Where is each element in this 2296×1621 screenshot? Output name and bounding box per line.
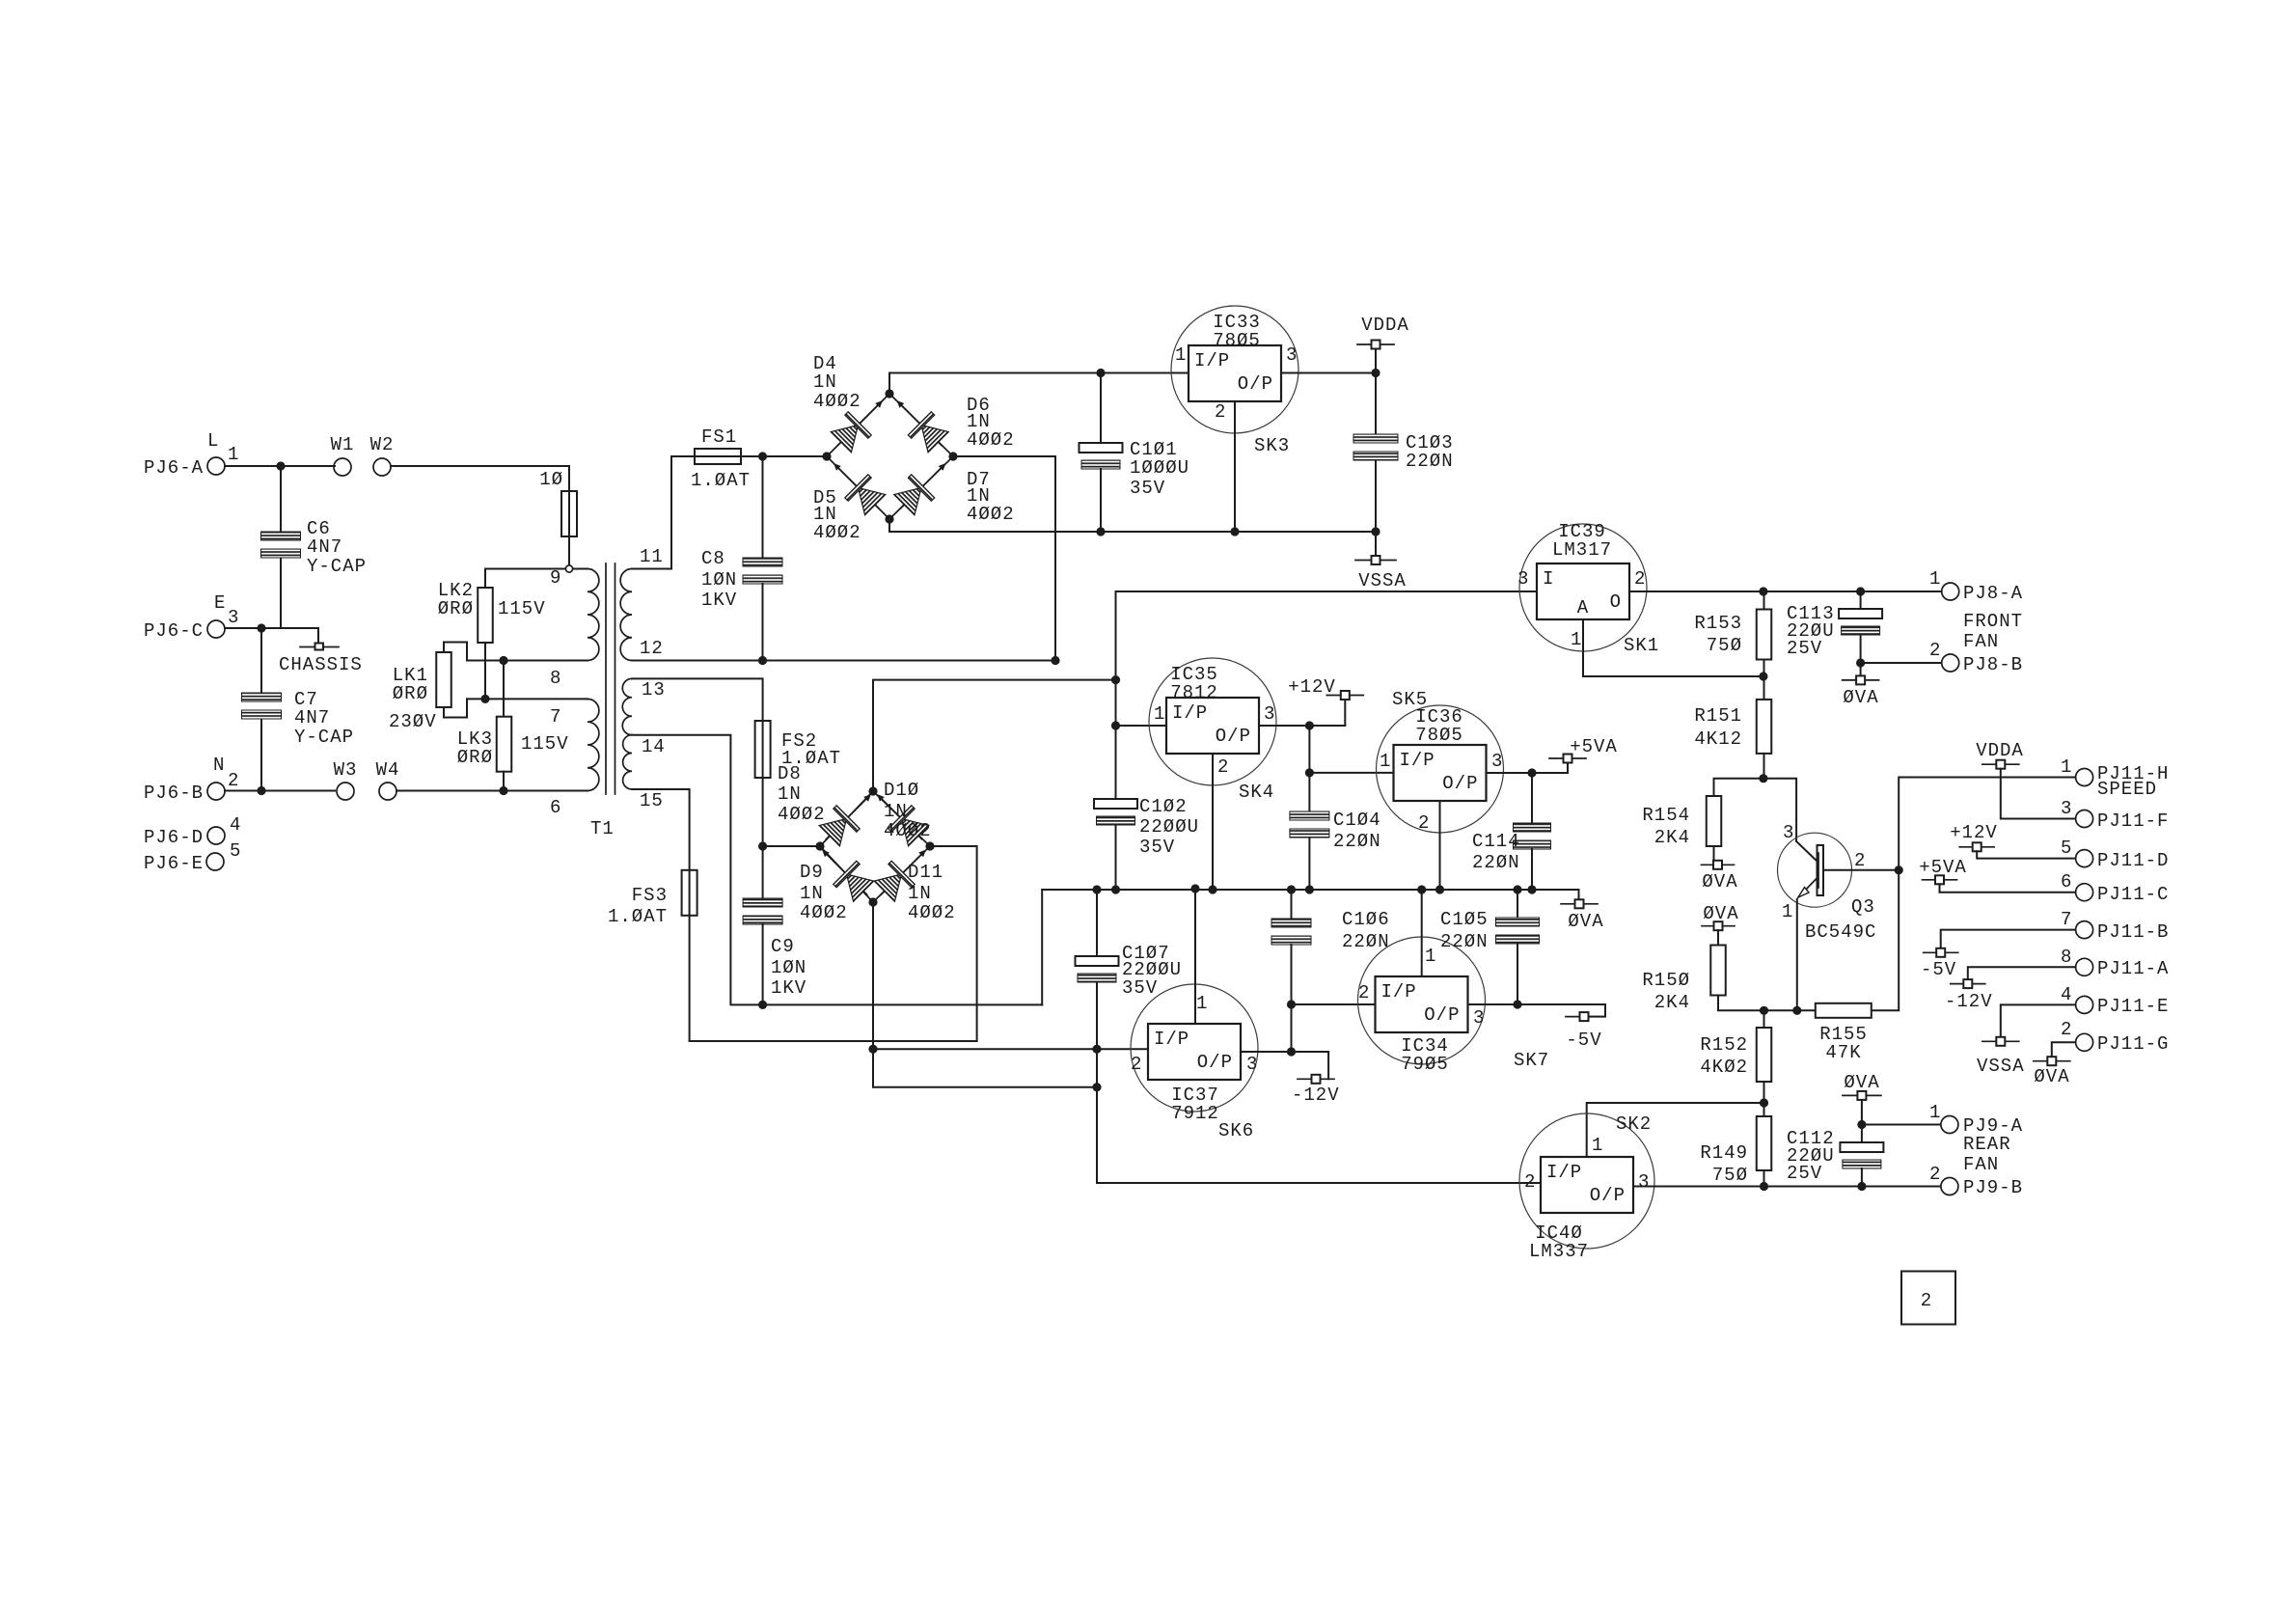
svg-text:1: 1	[1929, 568, 1941, 590]
svg-text:4ØØ2: 4ØØ2	[967, 429, 1015, 451]
wire R153 bottom lead	[1763, 660, 1765, 677]
svg-text:I/P: I/P	[1400, 750, 1435, 771]
svg-text:L: L	[207, 430, 219, 452]
junction IC34 input	[1287, 1000, 1296, 1008]
svg-text:I/P: I/P	[1381, 981, 1417, 1003]
svg-text:SPEED: SPEED	[2097, 779, 2157, 800]
svg-text:4N7: 4N7	[307, 536, 342, 558]
svg-text:13: 13	[642, 679, 666, 701]
fuse 10	[561, 491, 577, 536]
svg-text:O/P: O/P	[1197, 1052, 1233, 1073]
svg-text:4ØØ2: 4ØØ2	[884, 820, 932, 841]
connector PJ8-A pin 1	[1942, 583, 1959, 600]
svg-text:PJ6-D: PJ6-D	[144, 827, 204, 848]
svg-text:75Ø: 75Ø	[1707, 635, 1742, 656]
svg-text:FAN: FAN	[1963, 631, 1999, 652]
junction L node	[276, 461, 285, 470]
regulator IC34 7905 (SK7)	[1358, 937, 1486, 1064]
svg-text:23ØV: 23ØV	[389, 711, 437, 732]
wire 0VA bus	[1042, 890, 1578, 899]
wire FS1 to bridge left	[741, 455, 827, 457]
regulator IC35 7812 (SK4)	[1149, 658, 1276, 785]
svg-text:78Ø5: 78Ø5	[1213, 330, 1261, 351]
regulator IC40 LM337 (SK2)	[1519, 1113, 1654, 1249]
svg-text:PJ6-C: PJ6-C	[144, 620, 204, 642]
wire C112 top lead	[1861, 1125, 1863, 1143]
wire +5VA stub	[1567, 763, 1569, 774]
svg-text:3: 3	[1286, 344, 1298, 366]
junction N node	[257, 786, 265, 795]
wire IC36 output	[1487, 772, 1569, 774]
svg-text:75Ø: 75Ø	[1712, 1165, 1748, 1186]
svg-text:R15Ø: R15Ø	[1642, 970, 1690, 991]
capacitor C101 1000U 35V	[1080, 443, 1123, 469]
wire PJ6-B to W3	[225, 790, 335, 792]
connector PJ11-D pin 5	[2076, 850, 2093, 867]
svg-text:W2: W2	[370, 434, 395, 455]
page number box 2	[1901, 1272, 1955, 1325]
wire W4 to T1 pin 6	[396, 790, 588, 792]
junction IC36 gnd	[1435, 885, 1444, 893]
svg-text:3: 3	[1783, 822, 1794, 843]
wire IC33 output	[1281, 372, 1376, 374]
junction LK3 bottom	[499, 786, 507, 795]
svg-text:R153: R153	[1694, 613, 1742, 634]
power symbol 0VA PJ8	[1843, 675, 1879, 684]
wire 0VA to R150	[1717, 930, 1719, 946]
wire T1-14 0V line	[632, 735, 1042, 1005]
svg-text:W4: W4	[376, 759, 400, 781]
svg-text:E: E	[214, 592, 226, 614]
resistor R155 47K	[1816, 1003, 1872, 1018]
svg-text:O/P: O/P	[1590, 1185, 1626, 1206]
junction IC35 input	[1111, 721, 1120, 729]
svg-text:4ØØ2: 4ØØ2	[813, 522, 861, 543]
junction IC34 gnd	[1417, 885, 1426, 893]
wire C114 bottom lead	[1531, 849, 1533, 890]
svg-text:22ØN: 22ØN	[1440, 931, 1489, 952]
wire T1 pin 12 line	[632, 660, 1055, 662]
wire raw plus to IC39 input	[1116, 591, 1538, 680]
node bridge2 bottom	[868, 897, 877, 906]
capacitor C103 220N	[1353, 434, 1398, 460]
svg-text:6: 6	[2061, 871, 2072, 893]
wire IC39 output to PJ8-A	[1629, 591, 1941, 592]
junction IC37 input	[1092, 1045, 1101, 1054]
svg-text:1: 1	[1425, 946, 1436, 967]
wire -5V stub	[1588, 1004, 1605, 1017]
svg-text:-12V: -12V	[1945, 991, 1993, 1012]
wire minus raw to IC37 input	[873, 1048, 1148, 1050]
svg-text:14: 14	[642, 736, 666, 757]
svg-text:VSSA: VSSA	[1358, 570, 1407, 591]
wire T1 pin 8	[467, 660, 588, 662]
node bridge1 left	[822, 452, 831, 460]
connector PJ6-B pin 2 (N)	[207, 783, 225, 800]
node bridge2 left	[815, 841, 824, 850]
junction LK2 bottom	[480, 695, 489, 703]
svg-text:4KØ2: 4KØ2	[1700, 1057, 1748, 1078]
wire +12V to IC36 input	[1308, 726, 1310, 773]
junction minus IC37 row	[868, 1045, 877, 1054]
wire PJ6-C to chassis branch	[225, 627, 318, 629]
svg-text:R151: R151	[1694, 705, 1742, 727]
svg-text:PJ11-C: PJ11-C	[2097, 884, 2169, 905]
wire C106 to -12V rail	[1291, 945, 1293, 1052]
connector PJ11-G pin 2	[2076, 1033, 2093, 1051]
power symbol unlabeled PJ11-B	[1924, 948, 1958, 957]
power symbol 0VA R150	[1702, 921, 1735, 930]
wire 0VA to PJ9-A	[1861, 1100, 1863, 1125]
junction C104 bottom	[1305, 885, 1314, 893]
svg-text:5: 5	[230, 840, 241, 862]
svg-text:2: 2	[1358, 982, 1370, 1003]
power symbol VDDA PJ11	[1982, 760, 2019, 769]
wire to C8	[762, 456, 764, 558]
wire 9 left segment	[485, 568, 565, 570]
resistor R154 2K4	[1707, 796, 1722, 846]
svg-text:D8: D8	[778, 763, 802, 784]
svg-text:25V: 25V	[1787, 1163, 1822, 1184]
svg-text:I/P: I/P	[1154, 1029, 1189, 1050]
diode D11 1N4002	[869, 838, 938, 907]
svg-text:22ØN: 22ØN	[1472, 852, 1520, 873]
wire C8 to pin 12 line	[762, 584, 764, 661]
link LK1 0R0	[436, 652, 451, 707]
svg-text:PJ6-E: PJ6-E	[144, 853, 204, 874]
svg-text:4ØØ2: 4ØØ2	[800, 902, 848, 923]
wire -12V stub	[1327, 1052, 1329, 1079]
svg-text:I/P: I/P	[1546, 1162, 1582, 1183]
T1 secondary winding 13-14	[622, 678, 632, 734]
T1 primary winding 7-6	[588, 699, 599, 790]
svg-text:2: 2	[1634, 568, 1646, 590]
svg-text:1KV: 1KV	[771, 977, 806, 999]
svg-text:Q3: Q3	[1851, 896, 1875, 918]
wire LK2 to pin 7 line	[484, 643, 486, 699]
wire C104 top lead	[1308, 773, 1310, 811]
junction C9 bottom	[758, 1001, 767, 1009]
wire PJ11-A to -5V	[1968, 967, 2076, 979]
power symbol VSSA	[1355, 556, 1396, 564]
svg-text:1Ø: 1Ø	[539, 469, 563, 490]
capacitor C113 220U 25V	[1839, 609, 1882, 635]
svg-text:PJ9-B: PJ9-B	[1963, 1177, 2023, 1198]
junction C114 top	[1527, 768, 1536, 777]
wire VDDA stub	[1375, 348, 1377, 373]
wire fuse 10 to T1 pin 9	[568, 536, 570, 564]
junction 12 to bridge right	[1051, 656, 1059, 665]
link LK2 0R0	[478, 588, 493, 643]
svg-text:4: 4	[230, 814, 241, 836]
wire +12V to PJ11-D	[1977, 851, 2075, 858]
svg-text:3: 3	[2061, 798, 2072, 819]
connector PJ6-E pin 5	[206, 853, 224, 870]
svg-text:2: 2	[228, 770, 239, 791]
junction C101 bottom	[1096, 527, 1105, 536]
wire L to C6	[280, 466, 282, 532]
svg-text:1N: 1N	[908, 883, 932, 904]
wire raw plus vertical	[1115, 680, 1117, 799]
junction R153 R151	[1759, 672, 1767, 680]
wire C113 top lead	[1860, 591, 1862, 609]
capacitor C105 220N	[1496, 918, 1540, 944]
svg-text:D11: D11	[908, 862, 943, 883]
wire T1-11 to FS1	[632, 456, 695, 569]
junction C105 bottom	[1513, 1000, 1521, 1008]
chassis ground symbol	[300, 644, 339, 650]
svg-text:O: O	[1610, 591, 1622, 613]
svg-text:7912: 7912	[1171, 1103, 1219, 1124]
svg-text:7812: 7812	[1170, 682, 1218, 703]
junction C105 top	[1513, 885, 1521, 893]
wire FS2 to bridge2	[762, 778, 764, 846]
svg-text:I/P: I/P	[1172, 702, 1208, 724]
svg-text:REAR: REAR	[1963, 1134, 2011, 1155]
wire IC35 pin2 to 0V bus	[1212, 754, 1214, 890]
wire 0VA stub PJ8	[1860, 663, 1862, 675]
wire C106 top lead	[1291, 890, 1293, 919]
bridge diamond lower wires	[820, 791, 930, 902]
svg-text:5: 5	[2061, 838, 2072, 859]
svg-text:ØVA: ØVA	[1703, 903, 1738, 924]
svg-text:115V: 115V	[498, 598, 546, 619]
capacitor C106 220N	[1271, 919, 1311, 945]
junction R152 top	[1760, 1006, 1768, 1015]
svg-text:7: 7	[550, 706, 561, 728]
svg-text:SK5: SK5	[1392, 689, 1428, 710]
svg-text:I/P: I/P	[1194, 350, 1230, 371]
junction C114 bottom	[1527, 885, 1536, 893]
svg-text:SK4: SK4	[1239, 782, 1274, 803]
junction C8 bottom	[758, 656, 767, 665]
svg-text:1N: 1N	[778, 783, 802, 805]
svg-text:VSSA: VSSA	[1977, 1056, 2025, 1077]
wire bridge1 right to pin 12	[953, 456, 1055, 661]
svg-text:1KV: 1KV	[701, 590, 737, 611]
transistor Q3 BC549C	[1778, 833, 1900, 907]
wire LK1 bottom	[444, 699, 467, 717]
svg-text:SK2: SK2	[1616, 1113, 1652, 1135]
diode D4 1N4002	[826, 389, 894, 457]
resistor R150 2K4	[1710, 946, 1726, 996]
wire IC37 output	[1241, 1051, 1328, 1053]
wire C9 bottom lead	[762, 924, 764, 1004]
svg-text:T1: T1	[590, 818, 615, 839]
svg-text:VDDA: VDDA	[1361, 315, 1409, 336]
terminal W3	[337, 783, 354, 800]
svg-text:-12V: -12V	[1292, 1085, 1340, 1106]
svg-text:9: 9	[550, 567, 561, 589]
svg-text:1N: 1N	[884, 801, 908, 822]
svg-text:3: 3	[228, 607, 239, 628]
wire C107 bottom lead	[1096, 982, 1098, 1049]
svg-text:ØRØ: ØRØ	[393, 683, 428, 704]
svg-text:I: I	[1543, 568, 1554, 590]
svg-text:LM317: LM317	[1552, 539, 1612, 561]
svg-text:1.ØAT: 1.ØAT	[691, 470, 751, 491]
svg-text:PJ11-G: PJ11-G	[2097, 1033, 2169, 1055]
svg-text:4K12: 4K12	[1694, 728, 1742, 750]
capacitor C104 220N	[1290, 811, 1329, 838]
wire R151 bottom lead	[1763, 754, 1765, 779]
svg-text:22ØN: 22ØN	[1406, 451, 1454, 472]
wire to PJ9-A	[1862, 1124, 1940, 1126]
wire IC36 pin2 to 0V bus	[1439, 801, 1441, 890]
T1 secondary winding 11-12	[620, 569, 632, 661]
wire C7 to N node	[260, 720, 262, 791]
connector PJ9-A pin 1	[1941, 1116, 1958, 1134]
svg-text:3: 3	[1638, 1171, 1650, 1193]
svg-text:15: 15	[640, 790, 664, 811]
junction C113 top	[1856, 587, 1865, 595]
wire +5VA to PJ11-C	[1940, 884, 2076, 892]
junction FS2 C9 node	[758, 841, 767, 850]
svg-text:O/P: O/P	[1238, 373, 1273, 395]
capacitor C7 4N7 Y-CAP	[242, 693, 282, 719]
wire 0V riser	[1041, 890, 1043, 1004]
svg-text:R149: R149	[1700, 1142, 1748, 1164]
capacitor C9 10N 1KV	[743, 898, 782, 924]
svg-text:1N: 1N	[813, 371, 837, 393]
wire to PJ8-B	[1861, 662, 1941, 664]
diode D7 1N4002	[889, 452, 958, 520]
svg-text:2: 2	[1524, 1171, 1536, 1193]
connector PJ6-A pin 1 (L)	[207, 457, 225, 475]
wire R154 to 0VA	[1713, 846, 1715, 861]
svg-text:PJ11-D: PJ11-D	[2097, 850, 2169, 871]
svg-text:C1Ø6: C1Ø6	[1342, 909, 1390, 930]
wire R152 top lead	[1763, 1010, 1765, 1028]
svg-text:1: 1	[1782, 901, 1793, 922]
svg-text:O/P: O/P	[1442, 773, 1478, 794]
wire C114 top lead	[1531, 773, 1533, 823]
svg-text:PJ8-A: PJ8-A	[1963, 583, 2023, 604]
svg-text:78Ø5: 78Ø5	[1415, 725, 1463, 746]
svg-text:4: 4	[2061, 984, 2072, 1005]
svg-text:D1Ø: D1Ø	[884, 780, 919, 801]
svg-text:2: 2	[1929, 640, 1941, 661]
junction C101 top	[1096, 369, 1105, 377]
svg-text:35V: 35V	[1130, 478, 1165, 499]
wire E to C7	[260, 628, 262, 693]
svg-text:2: 2	[1921, 1290, 1932, 1311]
svg-text:4ØØ2: 4ØØ2	[967, 504, 1015, 525]
wire T1 pin 7	[467, 698, 588, 700]
power symbol -12V	[1298, 1075, 1334, 1084]
svg-text:2: 2	[1418, 812, 1430, 834]
node bridge2 right	[925, 841, 934, 850]
node bridge1 bottom	[885, 514, 893, 523]
diode D6 1N4002	[886, 389, 954, 457]
transformer T1 core	[606, 563, 615, 794]
svg-text:-5V: -5V	[1921, 959, 1956, 980]
wire FS3 to bridge2 right	[690, 846, 977, 1041]
svg-text:LM337: LM337	[1529, 1241, 1589, 1262]
svg-text:2K4: 2K4	[1654, 992, 1690, 1013]
diode D10 1N4002	[865, 783, 934, 851]
wire IC34 output	[1468, 1003, 1606, 1005]
svg-text:N: N	[213, 755, 225, 776]
wire IC33 pin2 to VSSA rail	[1234, 401, 1236, 532]
svg-text:W1: W1	[331, 434, 355, 455]
resistor R152 4K02	[1757, 1028, 1772, 1082]
svg-text:1.ØAT: 1.ØAT	[608, 906, 668, 927]
svg-text:1ØN: 1ØN	[771, 957, 806, 978]
wire C112 bottom lead	[1861, 1168, 1863, 1187]
wire C101 bottom lead	[1100, 469, 1102, 532]
junction PJ8-B node	[1856, 658, 1865, 667]
svg-text:1: 1	[1196, 993, 1208, 1014]
capacitor C6 4N7 Y-CAP	[261, 532, 301, 558]
node pin 9 open circle	[565, 565, 572, 572]
svg-text:ØVA: ØVA	[1568, 911, 1603, 932]
fuse FS1 1.0AT	[695, 449, 741, 464]
power symbol -5V	[1566, 1012, 1602, 1021]
resistor R153 750	[1757, 610, 1772, 660]
wire R153 top lead	[1763, 591, 1765, 610]
link LK3 0R0	[497, 717, 512, 772]
svg-text:2: 2	[1854, 850, 1866, 871]
power symbol VDDA	[1357, 341, 1394, 349]
svg-text:1N: 1N	[800, 883, 824, 904]
junction Q3 base speed	[1895, 865, 1903, 874]
resistor R149 750	[1757, 1116, 1772, 1170]
T1 secondary winding 14-15	[623, 735, 632, 789]
wire 9 to LK2	[484, 569, 486, 589]
svg-text:2: 2	[1217, 756, 1229, 778]
junction pin 8 node	[499, 656, 507, 665]
svg-text:11: 11	[640, 546, 664, 567]
svg-text:ØVA: ØVA	[2034, 1066, 2069, 1087]
svg-text:1: 1	[1175, 344, 1187, 366]
svg-text:ØRØ: ØRØ	[457, 747, 493, 768]
wire R152 bottom lead	[1763, 1082, 1765, 1116]
junction C103 bottom	[1371, 527, 1380, 536]
wire IC34 pin1 to 0V bus	[1421, 890, 1423, 976]
svg-text:1: 1	[1592, 1135, 1603, 1156]
junction R153 top	[1759, 587, 1767, 595]
svg-text:79Ø5: 79Ø5	[1401, 1054, 1449, 1075]
svg-text:115V: 115V	[521, 733, 569, 755]
node bridge1 top	[885, 389, 893, 398]
svg-text:3: 3	[1264, 703, 1275, 725]
wire T1-15 to FS3	[632, 789, 690, 870]
wire C6 to E node	[280, 559, 282, 628]
junction C107 top	[1092, 885, 1101, 893]
svg-text:CHASSIS: CHASSIS	[279, 654, 363, 675]
wire C103 bottom lead	[1375, 460, 1377, 532]
junction C112 bottom	[1857, 1182, 1866, 1191]
svg-text:C1Ø5: C1Ø5	[1440, 909, 1489, 930]
wire to IC40 pin1	[1587, 1103, 1764, 1156]
svg-text:12: 12	[640, 638, 664, 659]
svg-text:PJ11-F: PJ11-F	[2097, 810, 2169, 832]
svg-text:3: 3	[1517, 568, 1529, 590]
junction plus raw node	[1111, 675, 1120, 684]
svg-text:3: 3	[1491, 751, 1503, 772]
wire C105 bottom lead	[1517, 943, 1518, 1004]
regulator IC39 LM317 (SK1)	[1519, 524, 1647, 651]
wire W2 to fuse 10	[391, 466, 569, 491]
junction E node	[257, 623, 265, 632]
junction -12V node	[1287, 1047, 1296, 1056]
svg-text:22ØN: 22ØN	[1333, 831, 1381, 852]
svg-text:Y-CAP: Y-CAP	[294, 727, 354, 748]
svg-text:1ØN: 1ØN	[701, 569, 737, 591]
svg-text:FS1: FS1	[701, 426, 737, 448]
connector PJ6-D pin 4	[207, 827, 225, 844]
